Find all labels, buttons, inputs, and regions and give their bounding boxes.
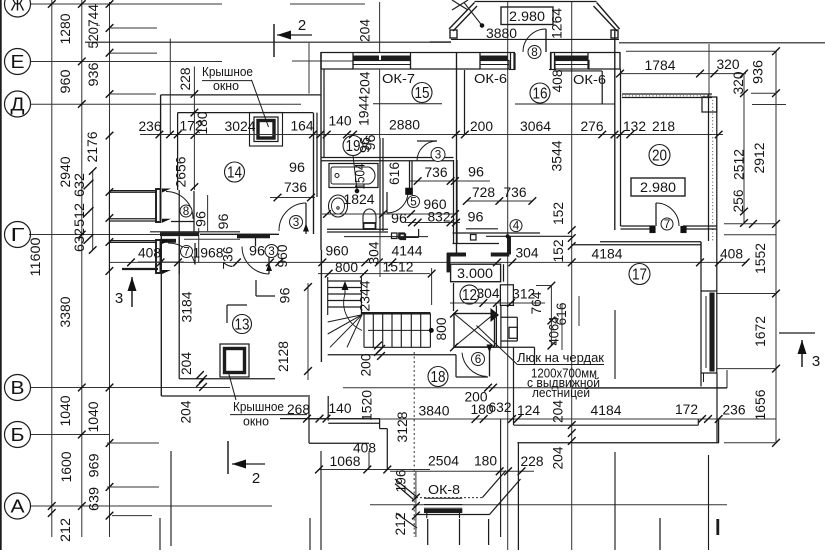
room tag 19 [343,136,363,156]
threshold squares [392,233,398,239]
svg-text:4184: 4184 [591,403,622,418]
window OK-6 left sill [480,61,509,70]
line y239 porch [184,238,240,240]
box 3.000 double edge [503,264,505,282]
terrace chamfer [396,513,417,528]
top wall inner [321,68,353,70]
room13 bottom wall [179,378,275,380]
room13 left wall [160,234,162,396]
double ticks x=571 y225-246 [568,226,576,234]
leader hatch [476,326,517,365]
svg-text:140: 140 [329,114,352,129]
leader 19 [353,156,357,191]
svg-text:960: 960 [58,70,73,94]
room20 top wall [622,93,712,95]
svg-text:132: 132 [623,119,646,134]
vert dim x562 [561,303,563,350]
svg-text:2912: 2912 [752,143,767,174]
room17 inner vertical [614,310,616,379]
washbasin [329,195,348,217]
vert x369 b [368,451,370,470]
vertical x309 [308,43,310,94]
svg-text:408: 408 [138,246,161,261]
dim row y273 [318,273,430,275]
wall thick y254.5 [447,253,466,257]
bay chamfer right [482,471,506,498]
wall x328 [327,396,329,421]
top wall outer [321,52,515,54]
vert dim x308 [307,283,309,380]
porch pier lower [156,240,161,273]
svg-text:Крышное: Крышное [233,400,284,414]
svg-text:ОК-6: ОК-6 [573,73,606,87]
wall y233 seg [453,232,540,234]
dim row y469.5 [319,469,430,471]
hatch notch sq [509,327,517,338]
room17 bottom wall [572,387,727,389]
stair bottom wall [328,354,456,356]
bath left wall [320,52,322,250]
svg-text:96: 96 [289,160,305,175]
svg-text:196: 196 [394,470,409,493]
wall thick x448.5 [447,253,451,272]
svg-text:2504: 2504 [428,454,459,469]
svg-text:11600: 11600 [28,238,43,277]
svg-text:Д: Д [11,94,25,114]
grid vertical x=379.6 upper [379,2,381,52]
svg-text:3380: 3380 [58,297,73,328]
svg-text:204: 204 [551,446,566,469]
door D3 mid leaf [305,203,307,234]
svg-text:764: 764 [529,291,544,314]
room tag 16 [530,83,550,103]
svg-text:960: 960 [326,244,349,259]
axis line Г [29,234,160,236]
door tag 3 low [265,245,278,258]
vert x321 b [320,451,322,550]
svg-text:14: 14 [227,165,242,182]
terrace marks left [159,518,161,550]
svg-text:212: 212 [393,513,408,536]
svg-text:ОК-6: ОК-6 [474,72,507,86]
room14 left wall inner [177,113,179,190]
wall y234.5 left [200,233,279,235]
svg-text:8: 8 [183,206,190,218]
wall jambs top [320,52,322,69]
wall y418.6 [280,418,380,420]
stair walking line [368,329,431,331]
svg-text:96: 96 [468,210,484,225]
svg-text:96: 96 [468,165,484,180]
svg-text:1504: 1504 [353,163,368,189]
bay top dotted [416,497,482,499]
hatch room walls [453,283,455,311]
svg-text:1068: 1068 [330,454,361,469]
window right stub [703,373,705,382]
svg-text:17: 17 [632,267,647,284]
svg-text:180: 180 [195,112,210,135]
underline 15 [373,103,442,105]
dim line x=81.8 [81,0,83,537]
leader roof window 1 [252,80,269,127]
hatch rect [454,314,495,348]
svg-text:520,: 520, [86,24,101,49]
svg-text:В: В [11,378,25,398]
axis line Ж [31,3,222,5]
dim ticks stair [374,342,382,350]
door D3 upper leaf [417,140,437,142]
wall 15|16 divider [456,53,458,253]
svg-text:204: 204 [179,400,194,423]
axis circle Б [5,422,31,448]
porch mid wall b [109,240,156,242]
bay chamfer left [395,479,416,496]
door tag 8 porch [180,205,192,217]
svg-text:1784: 1784 [645,58,676,73]
svg-text:140: 140 [329,401,352,416]
extension y=515.6 [112,515,152,517]
section 2 bottom [227,441,229,474]
svg-text:408: 408 [720,247,743,262]
room14 right wall [313,113,315,234]
dim row y262.7 [493,259,501,267]
grid vertical x=170.3 [169,39,171,135]
svg-text:5: 5 [410,196,417,208]
door D7 room20 arc [656,203,679,226]
svg-text:2656: 2656 [174,157,189,188]
room17 right wall lower [700,373,702,387]
roof cross [452,0,468,10]
room tag 13 [233,315,252,334]
svg-text:936: 936 [751,60,766,84]
axis line А [31,505,272,507]
vertical x709 top [708,44,710,97]
bath top wall [321,157,454,159]
svg-text:2: 2 [298,17,306,34]
svg-text:3024: 3024 [225,119,256,134]
axis line Е [31,61,222,63]
stair winder lines [328,315,362,322]
door D7 porch arc [168,243,195,265]
svg-text:152: 152 [551,202,566,225]
svg-text:800: 800 [434,318,449,341]
stair lower flight bottom [364,346,430,348]
ticks x=81.8 [78,0,86,8]
pier 16 right [601,71,603,104]
threshold sq mid [471,235,477,241]
dim row y257 [110,261,747,263]
wall y443 [309,442,369,444]
room14 top wall outer [161,94,321,96]
svg-text:3544: 3544 [550,140,565,171]
door tag 6 [472,353,485,366]
ticks x=92.7 [84,180,94,190]
stair landing edge [361,312,430,314]
room14 top wall inner [178,112,313,114]
svg-text:204: 204 [358,19,373,42]
door tag 3 upper [431,148,445,162]
svg-text:1656: 1656 [753,390,768,421]
svg-text:736: 736 [284,180,307,195]
svg-text:728: 728 [472,185,495,200]
svg-text:228: 228 [178,68,193,91]
svg-text:2176: 2176 [85,132,100,163]
svg-text:1512: 1512 [383,260,414,275]
svg-text:6: 6 [475,354,482,366]
dim line x=51.8 [51,0,53,537]
svg-text:7: 7 [183,246,190,258]
roof window 1 frame [250,113,283,147]
door D3 upper arc [417,141,437,161]
bottom wall y442.7 [517,442,719,444]
svg-text:744: 744 [86,4,101,27]
ticks x=744 [740,70,748,78]
corridor wall x409 [409,161,411,188]
room20 right wall [708,94,710,241]
svg-text:16: 16 [533,86,548,103]
svg-text:2: 2 [252,470,260,487]
dim line y=214 bath [322,213,455,215]
axis circle Ж [5,0,31,17]
door D8 balcony arc [523,29,546,52]
line y=236.6 [344,236,428,238]
section 3 right [779,332,815,334]
porch top wall [109,190,156,192]
svg-text:96: 96 [391,211,407,226]
svg-text:1824: 1824 [344,192,375,207]
window OK-8 [424,497,462,499]
room13 dash corner b [255,280,257,296]
dim ticks r13 [196,371,204,379]
door7 niche jamb [194,243,196,265]
leader 3880 [464,3,482,26]
svg-text:2512: 2512 [732,149,747,180]
sill bar [237,234,270,239]
ticks x=51.8 [48,0,56,8]
svg-text:3: 3 [293,217,300,229]
dim row y420.7 [307,418,776,420]
svg-text:1040: 1040 [58,396,73,427]
svg-text:800: 800 [335,260,358,275]
svg-text:736: 736 [425,165,448,180]
balcony floor line [451,38,619,40]
window right inner [705,296,707,368]
window OK-6 left bar [480,55,508,60]
dim row y134 [140,134,723,136]
door D8 balcony leaf [545,29,547,52]
svg-text:3184: 3184 [180,291,195,322]
dim line x=776 [775,51,777,443]
balcony post right [611,30,618,38]
level box 2.980 room20 [631,178,685,196]
leader roof window 2 [228,371,236,400]
door D8 porch arc [166,192,193,219]
axis circle В [5,375,31,401]
door tag 7 porch [181,246,193,258]
extension y=487 [107,486,159,488]
svg-text:96: 96 [358,137,373,153]
svg-text:18: 18 [431,369,446,386]
window OK-7 sill [353,61,411,70]
svg-text:4144: 4144 [392,244,423,259]
svg-text:304: 304 [516,246,539,261]
dim row y225 [405,222,460,224]
room20 bottom wall [621,225,656,227]
window OK-7 bar [353,55,379,60]
svg-text:4064: 4064 [547,316,562,345]
extension y=94 [110,93,157,95]
roof window 2 frame [220,344,249,377]
svg-text:2344: 2344 [358,280,373,311]
svg-text:лестницей: лестницей [532,386,590,400]
extension y=223.8 r [724,223,776,225]
svg-text:1968: 1968 [193,246,224,261]
svg-text:3: 3 [268,246,275,258]
svg-text:268: 268 [287,402,310,417]
svg-text:304: 304 [477,286,500,301]
eaves line [85,41,451,43]
svg-text:1264: 1264 [550,8,565,39]
vert dim x541 [550,286,552,346]
svg-text:960: 960 [275,245,290,268]
svg-text:1672: 1672 [753,316,768,347]
wall 16|20 [614,30,616,230]
svg-text:3: 3 [812,353,820,370]
wall under hatch [456,376,488,378]
svg-text:236: 236 [723,403,746,418]
svg-text:1520: 1520 [360,390,375,421]
section 2 top [273,24,275,57]
door8 jambs [510,53,512,70]
svg-text:639: 639 [87,487,102,511]
window OK-6 right bar [555,55,588,60]
room tag 18 [428,367,448,387]
svg-text:3: 3 [435,149,442,161]
svg-text:152: 152 [551,240,566,263]
wall thick x508.5 [507,236,511,254]
svg-text:200: 200 [470,119,493,134]
svg-text:96: 96 [216,214,231,230]
door D6 arc [462,353,486,377]
svg-text:ОК-7: ОК-7 [382,72,415,86]
svg-text:616: 616 [387,162,402,185]
room20 corner box [702,97,717,112]
svg-text:2.980: 2.980 [640,180,676,195]
room tag 20 [649,145,670,166]
room17 right wall upper [700,242,702,291]
underline 16 [515,103,615,105]
svg-text:15: 15 [415,85,430,102]
svg-text:7: 7 [664,219,671,231]
svg-text:200: 200 [359,354,374,377]
ground line right [619,42,825,44]
door D7 room20 leaf [655,203,657,226]
axis circle Г [5,222,31,248]
bathtub [329,164,378,188]
svg-text:3128: 3128 [395,412,410,443]
svg-text:96: 96 [249,244,265,259]
svg-text:969: 969 [87,454,102,478]
porch mid wall a [109,218,156,220]
room tag 14 [225,162,245,182]
bath bottom wall [327,228,388,230]
porch outer edge [108,191,110,271]
svg-text:1944: 1944 [357,95,372,126]
balcony post left [450,30,457,38]
axis line Б [31,434,110,436]
level box 3.000 [451,264,501,282]
door D5 arc [387,192,408,213]
svg-text:632: 632 [489,400,512,415]
porch pier upper [156,189,161,222]
svg-text:320: 320 [731,72,746,95]
svg-text:204: 204 [358,71,373,94]
room17 top wall [600,241,701,243]
svg-text:Б: Б [11,425,25,445]
svg-text:1600: 1600 [59,452,74,483]
extension y=293.5 r [717,293,776,295]
line y262 porch [138,261,184,263]
svg-text:96: 96 [278,288,293,304]
svg-text:164: 164 [291,119,314,134]
svg-text:3064: 3064 [520,119,551,134]
shaft rect [500,285,513,306]
wall step right [379,419,381,429]
svg-text:окно: окно [243,415,269,429]
svg-text:ОК-8: ОК-8 [428,483,460,497]
stair left wall [320,250,322,362]
axis line Д [31,103,301,105]
svg-text:2.980: 2.980 [509,9,545,24]
door D3 low leaf [268,247,270,275]
svg-text:512: 512 [72,203,87,227]
svg-text:2940: 2940 [58,157,73,188]
sheet frame left border [0,0,2,550]
door D6 leaf [489,345,491,377]
vert line x431.6 [431,268,433,305]
room tag 15 [412,83,432,103]
threshold sq left [400,234,406,240]
bath right wall [379,138,381,231]
ticks x=776 [772,47,780,55]
dim line x=92.7 [92,171,94,250]
svg-text:96: 96 [194,211,209,227]
svg-text:Г: Г [11,225,25,245]
svg-text:12: 12 [462,287,477,304]
vert dim x415.9 [415,471,417,537]
extension y=442.8 r [724,442,776,444]
svg-text:3840: 3840 [419,404,450,419]
room tag 4 [510,220,522,232]
svg-text:218: 218 [652,119,675,134]
svg-text:256: 256 [731,190,746,213]
terrace marks [427,519,429,545]
svg-text:736: 736 [504,185,527,200]
room tag 17 [629,264,650,285]
svg-text:20: 20 [652,148,667,165]
wall x309 [308,397,310,443]
svg-text:408: 408 [550,70,565,93]
extension y=51.2 r [626,50,776,52]
door D3 low arc [242,247,269,275]
axis circle А [5,493,31,519]
svg-text:632: 632 [72,228,87,252]
window right frame [701,291,717,373]
svg-text:Крышное: Крышное [202,65,253,79]
dim row y303 [450,302,545,304]
svg-text:320: 320 [717,57,740,72]
stair lower flight treads [363,313,365,347]
